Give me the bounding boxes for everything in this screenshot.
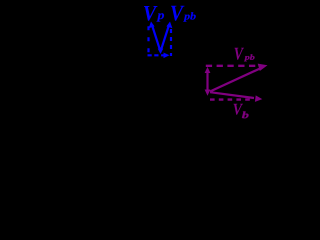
label V_pb (blue, velocity of p relative to b) <box>171 6 196 22</box>
vector V_pb (purple solid arrow up-right) <box>210 64 268 92</box>
label V_b (purple) <box>234 104 249 118</box>
dashed projection line right (blue vertical) <box>170 29 172 56</box>
dashed construction line top (purple horizontal) <box>206 65 256 67</box>
dashed base arrow (blue horizontal with right arrowhead) <box>148 53 170 59</box>
label V_p (blue, velocity of p) <box>144 6 164 22</box>
dashed construction line bottom (purple horizontal) <box>210 98 250 100</box>
dashed projection line left (blue vertical) <box>147 26 149 54</box>
vector V_b (purple solid arrow right, slightly down) <box>210 92 262 102</box>
double-headed vertical arrow (purple, vertical component) <box>205 67 211 96</box>
vector V_p (blue solid arrow up-left arm of V) <box>149 22 160 51</box>
label V_pb (purple) <box>235 48 255 62</box>
arrowhead down at V vertex <box>158 49 164 54</box>
vector V_pb (blue solid arrow up-right arm of V) <box>161 22 172 51</box>
